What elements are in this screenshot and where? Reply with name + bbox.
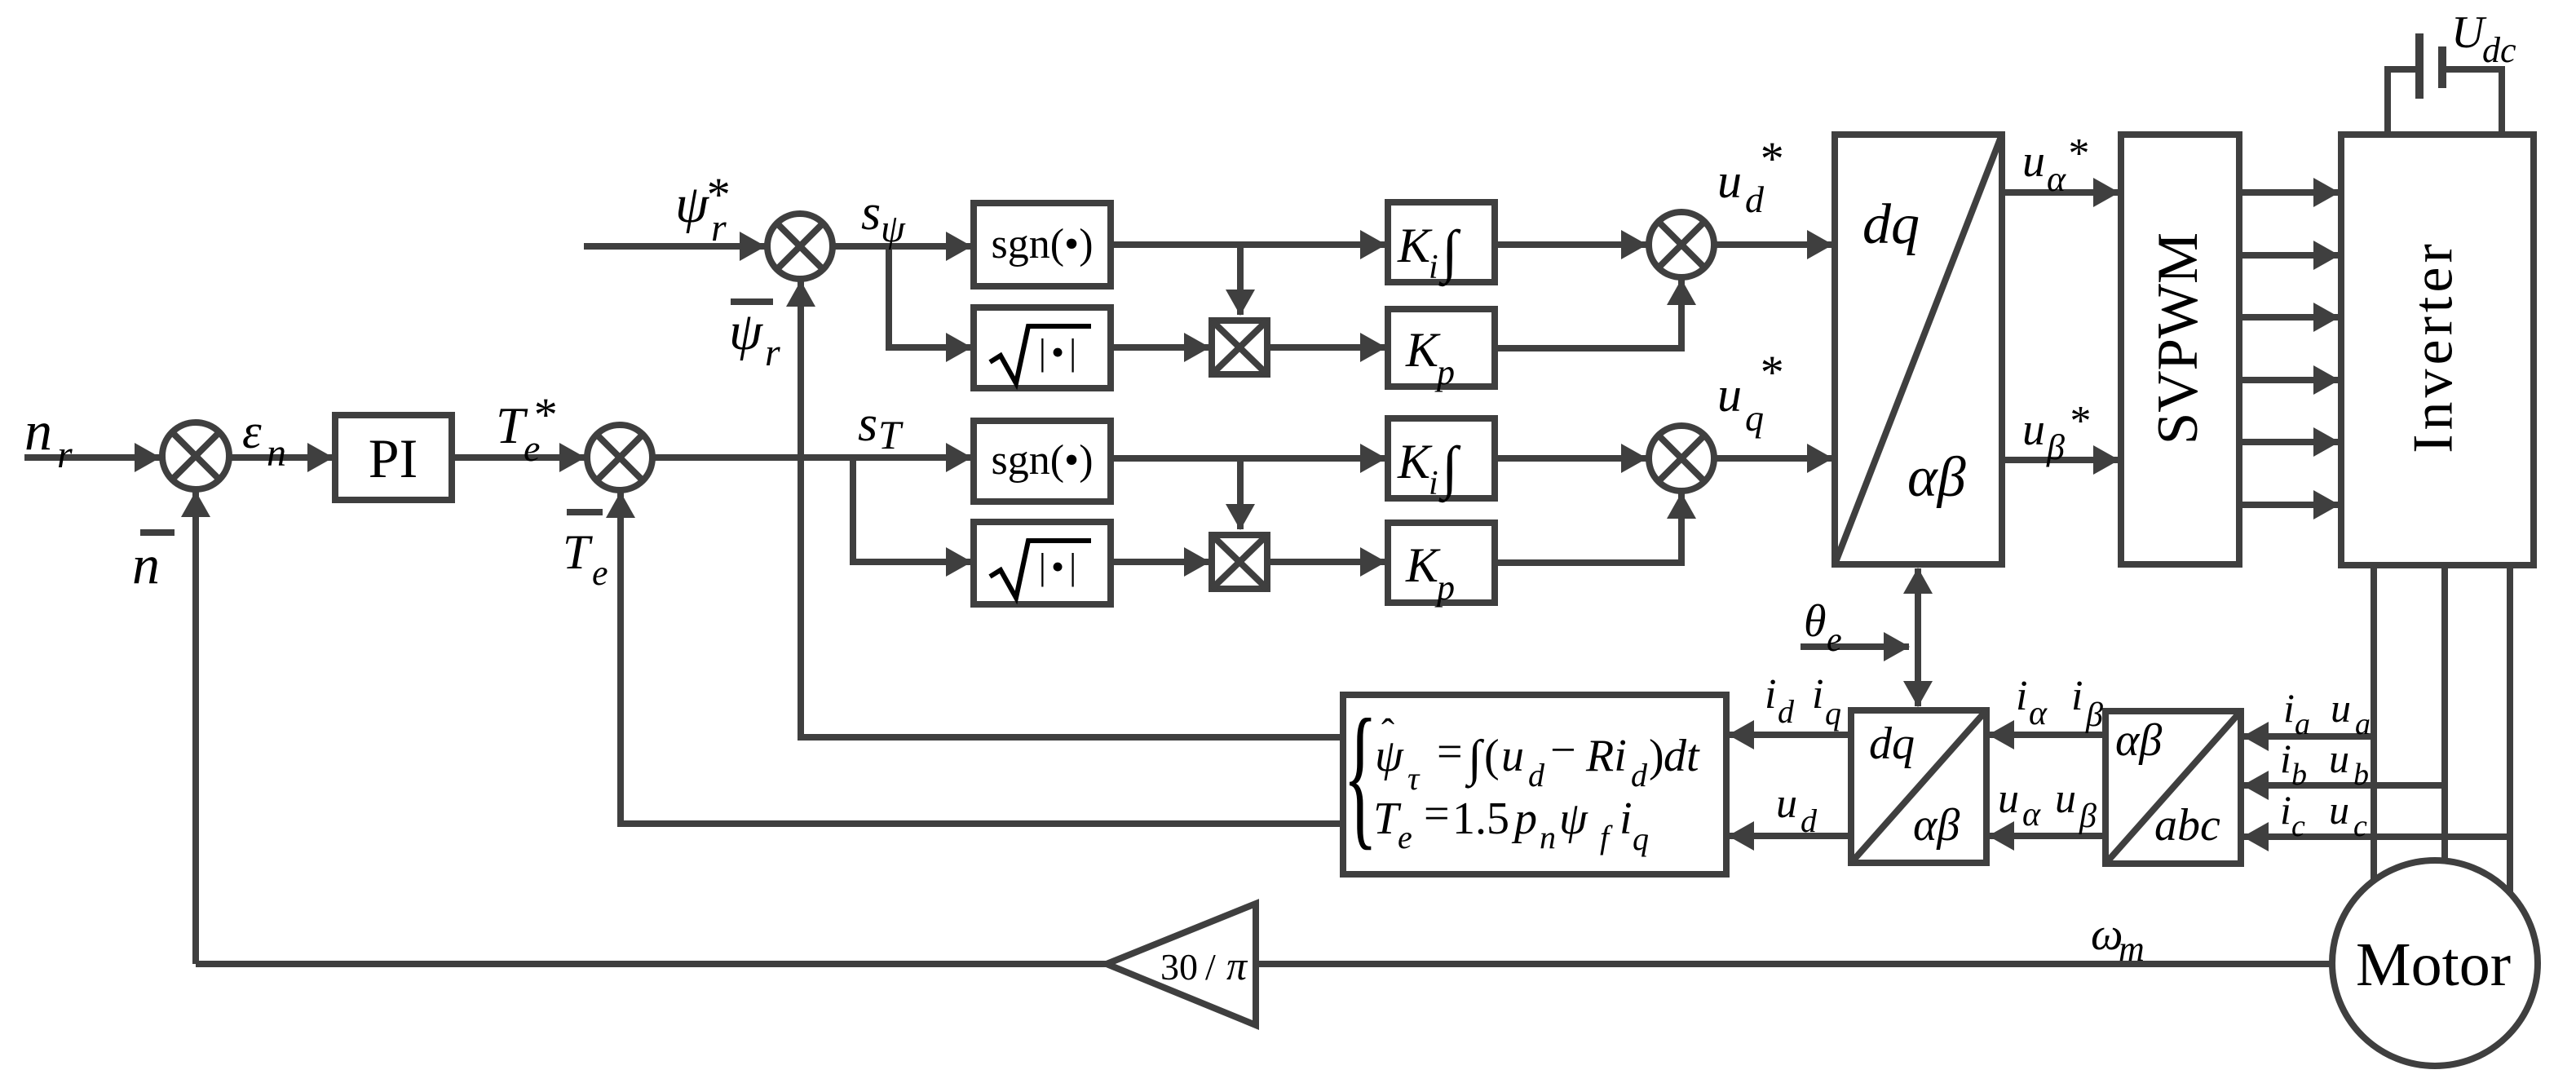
wire theta_e down into small dq block [1915, 636, 1921, 706]
wire Ki2 to S5 [1495, 455, 1646, 462]
svg-text:K: K [1397, 435, 1433, 489]
wire PI to S2 [452, 454, 585, 461]
svg-text:i: i [1619, 794, 1633, 844]
svg-text:ε: ε [242, 405, 262, 458]
svg-text:T: T [563, 525, 593, 579]
wire S1 to PI [229, 454, 333, 461]
svg-text:dq: dq [1869, 718, 1915, 769]
svg-text:p: p [1434, 352, 1455, 392]
label s_T [858, 396, 904, 458]
label nbar [132, 529, 175, 595]
svg-text:r: r [57, 433, 73, 476]
label psi_r* [675, 168, 728, 250]
label Ki1 [1397, 219, 1461, 287]
svg-text:/: / [1205, 946, 1216, 988]
svg-text:β: β [2079, 798, 2097, 835]
svg-text:i: i [2280, 736, 2291, 781]
block estimator equations [1343, 695, 1726, 874]
label estimator equations [1343, 687, 1700, 864]
block Ki1 [1388, 202, 1495, 282]
block ab/abc transform [2105, 711, 2241, 864]
svg-text:{: { [1343, 687, 1377, 864]
svg-text:ˆ: ˆ [1381, 711, 1394, 754]
label omega_m [2091, 909, 2145, 969]
label u_alpha u_beta [1998, 776, 2097, 835]
svg-text:α: α [2047, 159, 2066, 199]
block sgn T [974, 421, 1111, 502]
svg-text:p: p [1511, 794, 1537, 844]
block SVPWM [2121, 135, 2239, 564]
wire tap b to abc block [2243, 782, 2445, 789]
wire i_ab to small dq [1989, 732, 2105, 738]
block small dq/ab transform [1851, 710, 1986, 863]
label i_alpha i_beta [2016, 673, 2103, 734]
svg-text:b: b [2353, 758, 2369, 792]
wire inverter phase b down [2441, 565, 2448, 861]
svg-text:∫: ∫ [1438, 435, 1461, 503]
label 30/pi [1160, 943, 1248, 988]
wire u_alpha to SVPWM [2002, 189, 2119, 196]
svg-text:u: u [2022, 405, 2045, 455]
wire n_r input [24, 454, 160, 461]
svg-text:e: e [1398, 819, 1412, 855]
svg-text:SVPWM: SVPWM [2146, 232, 2210, 444]
label psibar_r [729, 298, 780, 374]
svg-text:i: i [2016, 673, 2027, 719]
svg-text:i: i [1812, 671, 1823, 718]
svg-text:ψ: ψ [881, 207, 906, 250]
summing junction S1 (speed error) [162, 422, 229, 489]
svg-text:c: c [2353, 809, 2367, 843]
svg-text:r: r [765, 331, 780, 374]
wire u_ab to small dq [1989, 833, 2105, 839]
svg-text:α: α [2022, 796, 2041, 833]
wire S5 to dq block [1714, 455, 1832, 462]
wire sgn T to Ki2 [1111, 455, 1385, 462]
block PI [335, 415, 452, 500]
label s_psi [861, 185, 906, 250]
svg-text:Ri: Ri [1585, 731, 1627, 781]
label i_d i_q [1765, 671, 1841, 732]
wire theta_e up into dq block [1915, 568, 1921, 636]
wire nbar feedback vertical into S1 [192, 492, 199, 964]
svg-text:dc: dc [2482, 30, 2516, 70]
svg-text:|•|: |•| [1039, 546, 1082, 587]
svg-text:u: u [2329, 787, 2349, 833]
battery Udc plate long [2415, 33, 2424, 99]
svg-text:=: = [1437, 727, 1463, 777]
svg-text:*: * [2068, 398, 2089, 444]
svg-text:b: b [2291, 758, 2307, 792]
label Te* [496, 388, 555, 469]
svg-text:s: s [858, 396, 877, 452]
wire omega_m from motor to gain triangle [1256, 961, 2332, 967]
wire SVPWM to inverter 5 [2239, 439, 2339, 445]
svg-text:Inverter: Inverter [2402, 240, 2465, 453]
svg-text:T: T [878, 412, 904, 458]
wire Kp1 up into S4 [1495, 280, 1681, 348]
svg-text:q: q [1825, 695, 1841, 732]
wire tap c to abc block [2243, 833, 2510, 840]
svg-text:u: u [2329, 736, 2349, 781]
wire Udc right lead [2446, 69, 2502, 135]
svg-text:u: u [2331, 685, 2351, 731]
label Kp2 [1405, 538, 1455, 608]
svg-text:q: q [1633, 820, 1649, 857]
svg-text:e: e [1827, 621, 1842, 659]
svg-text:n: n [132, 533, 160, 595]
wire psi_r* input [584, 243, 765, 250]
wire SVPWM to inverter 3 [2239, 314, 2339, 321]
label Kp1 [1405, 323, 1455, 392]
svg-text:n: n [1540, 819, 1556, 855]
svg-text:s: s [861, 185, 881, 241]
svg-text:*: * [532, 388, 555, 441]
wire sgn psi to Ki [1111, 241, 1385, 248]
label u_d in [1776, 780, 1818, 839]
svg-text:i: i [2280, 787, 2291, 833]
summing junction S4 (u_d) [1649, 212, 1714, 277]
svg-text:π: π [1226, 943, 1248, 988]
svg-text:i: i [2071, 673, 2083, 719]
wire sqrt psi to M1 [1111, 344, 1209, 351]
label u_beta* [2022, 398, 2089, 467]
block Kp1 [1388, 309, 1495, 387]
svg-text:K: K [1405, 538, 1441, 592]
svg-text:u: u [1717, 368, 1742, 422]
label U_dc [2451, 7, 2516, 70]
wire tap a to abc block [2243, 733, 2374, 740]
svg-text:c: c [2291, 809, 2305, 843]
wire drop to multiplier M1 [1237, 245, 1244, 315]
wire psibar feedback up into S3 [801, 281, 1344, 737]
svg-text:1.5: 1.5 [1452, 794, 1509, 844]
block dq/ab transform [1835, 135, 2002, 564]
svg-text:*: * [1758, 346, 1782, 399]
label i_a u_a [2283, 685, 2371, 741]
multiplier M2 [1212, 535, 1267, 589]
svg-text:q: q [1745, 397, 1764, 439]
svg-text:K: K [1405, 323, 1441, 377]
wire SVPWM to inverter 1 [2239, 189, 2339, 196]
svg-text:i: i [1429, 465, 1438, 502]
svg-text:=: = [1424, 789, 1450, 839]
svg-text:αβ: αβ [1913, 800, 1960, 851]
svg-text:dq: dq [1862, 193, 1920, 256]
wire u_beta to SVPWM [2002, 457, 2119, 463]
svg-text:i: i [1765, 671, 1776, 718]
svg-text:*: * [1758, 132, 1782, 185]
svg-text:n: n [24, 400, 52, 462]
wire Tebar feedback vertical into S2 [621, 493, 1344, 824]
svg-text:i: i [1429, 249, 1438, 286]
block Kp2 [1388, 523, 1495, 603]
svg-text:d: d [1778, 693, 1795, 730]
wire sT branch down to sqrt block [853, 458, 971, 562]
label Ki2 [1397, 435, 1461, 503]
svg-text:|•|: |•| [1039, 331, 1082, 373]
svg-text:e: e [592, 553, 608, 593]
label sqrt1 [990, 326, 1091, 383]
svg-text:β: β [2046, 427, 2065, 467]
label u_d* [1717, 132, 1782, 220]
label i_b u_b [2280, 736, 2369, 792]
wire SVPWM to inverter 6 [2239, 502, 2339, 508]
svg-text:ψ: ψ [729, 302, 763, 361]
svg-text:αβ: αβ [1907, 446, 1966, 509]
svg-text:−: − [1550, 725, 1576, 776]
label u_q* [1717, 346, 1782, 439]
multiplier M1 [1212, 321, 1267, 374]
label sqrt2 [990, 541, 1091, 598]
svg-text:sgn(•): sgn(•) [991, 437, 1093, 484]
label Tebar [563, 509, 608, 593]
wire gain triangle to feedback corner [196, 961, 1107, 967]
svg-text:sgn(•): sgn(•) [991, 221, 1093, 267]
block inverter [2341, 135, 2534, 565]
wire s_psi branch down to sqrt block [889, 246, 971, 347]
label u_alpha* [2022, 130, 2088, 199]
svg-text:u: u [1717, 154, 1742, 208]
svg-text:Motor: Motor [2356, 931, 2511, 999]
label theta_e [1804, 596, 1842, 659]
svg-text:θ: θ [1804, 596, 1827, 647]
wire theta_e input [1801, 643, 1909, 650]
wire inverter phase a down [2371, 565, 2377, 881]
wire SVPWM to inverter 4 [2239, 377, 2339, 383]
wire S3 to sgn psi [833, 243, 971, 250]
wire u_d to estimator [1729, 833, 1851, 839]
svg-text:u: u [2055, 776, 2076, 822]
label i_c u_c [2280, 787, 2367, 843]
wire SVPWM to inverter 2 [2239, 252, 2339, 259]
summing junction S5 (u_q) [1649, 426, 1714, 491]
label ab abc [2115, 715, 2220, 851]
svg-text:∫: ∫ [1465, 731, 1485, 789]
svg-text:d: d [1631, 757, 1648, 794]
svg-text:*: * [2066, 130, 2088, 177]
svg-text:m: m [2119, 929, 2145, 969]
wire sqrt T to M2 [1111, 559, 1209, 565]
svg-text:d: d [1801, 802, 1818, 839]
block Ki2 [1388, 418, 1495, 498]
summing junction S2 (torque) [587, 425, 652, 490]
wire i_dq to estimator [1729, 732, 1851, 738]
svg-text:u: u [1776, 780, 1797, 827]
svg-text:β: β [2085, 696, 2103, 734]
svg-text:i: i [2283, 685, 2295, 731]
label small dq [1869, 718, 1960, 851]
block sqrt psi [974, 307, 1111, 388]
battery Udc plate short [2438, 46, 2446, 88]
svg-text:u: u [1501, 731, 1524, 781]
block sgn psi [974, 203, 1111, 286]
label n_r [24, 400, 73, 476]
svg-text:d: d [1528, 757, 1545, 794]
svg-text:(: ( [1484, 731, 1500, 781]
svg-text:αβ: αβ [2115, 715, 2162, 766]
svg-text:∫: ∫ [1438, 219, 1461, 287]
svg-text:a: a [2295, 707, 2310, 741]
svg-text:n: n [267, 431, 286, 475]
wire inverter phase c down [2507, 565, 2513, 893]
svg-text:dt: dt [1664, 731, 1700, 781]
svg-text:K: K [1397, 219, 1433, 272]
label epsilon_n [242, 405, 286, 475]
svg-text:abc: abc [2154, 800, 2220, 851]
wire S4 to dq block [1714, 241, 1832, 248]
wire Udc left lead [2388, 69, 2416, 135]
svg-text:ψ: ψ [1559, 794, 1588, 844]
wire Kp2 up into S5 [1495, 493, 1681, 563]
block sqrt T [974, 522, 1111, 604]
svg-text:): ) [1649, 731, 1664, 781]
svg-text:a: a [2355, 707, 2371, 741]
wire drop to multiplier M2 [1237, 458, 1244, 529]
svg-text:τ: τ [1407, 760, 1421, 797]
svg-text:α: α [2029, 695, 2048, 732]
svg-text:*: * [705, 168, 728, 221]
motor circle [2332, 860, 2538, 1066]
wire M2 to Kp2 [1267, 559, 1385, 565]
wire M1 to Kp [1267, 344, 1385, 351]
svg-text:30: 30 [1160, 946, 1198, 988]
wire Ki1 to S4 [1495, 241, 1646, 248]
svg-text:u: u [2022, 136, 2045, 187]
wire S2 output to sgn T [652, 454, 971, 461]
summing junction S3 (flux error) [767, 214, 833, 279]
svg-text:u: u [1998, 776, 2019, 822]
svg-text:f: f [1600, 819, 1613, 855]
svg-text:PI: PI [369, 427, 418, 489]
gain triangle 30/pi [1107, 904, 1256, 1025]
svg-text:p: p [1434, 568, 1455, 608]
